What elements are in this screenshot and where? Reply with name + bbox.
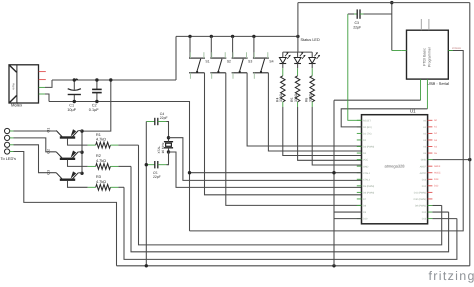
svg-text:10µF: 10µF — [67, 108, 76, 112]
wire LED anode rail — [283, 51, 312, 53]
svg-text:R1: R1 — [96, 133, 101, 137]
svg-text:fritzing: fritzing — [429, 269, 474, 283]
junction dot U1 GND pin — [332, 171, 335, 174]
label To LED's — [1, 156, 17, 161]
wire R5 to U1 pin6 — [298, 107, 362, 160]
FTDI top pin 1 — [420, 19, 422, 30]
junction dot C1 top — [73, 78, 76, 81]
svg-text:XTAL2: XTAL2 — [363, 178, 371, 181]
wire C3 to U1 RESET — [348, 14, 362, 120]
wire S2 output to U1 D8 — [226, 73, 362, 206]
wire U1 D11 to bus — [432, 204, 441, 206]
capacitor C4 22pF — [146, 118, 166, 125]
junction dot C1 bottom — [73, 100, 76, 103]
wire FTDI RX to U1 D0 — [341, 109, 427, 127]
junction dot Q1 collector — [80, 129, 83, 132]
wire crystal GND riser — [145, 122, 147, 266]
svg-text:D12: D12 — [434, 185, 439, 188]
svg-text:Molex: Molex — [11, 103, 23, 108]
wire bus D11 (L1) — [139, 145, 442, 245]
U1 right pins with labels — [414, 119, 441, 221]
wire GND rail — [49, 102, 190, 231]
svg-text:POWER: POWER — [452, 47, 461, 50]
svg-text:D10 (PWM): D10 (PWM) — [414, 198, 427, 201]
wire VCC to transistor collectors — [82, 80, 111, 131]
svg-text:GND: GND — [421, 159, 427, 162]
switch S3 — [232, 36, 248, 78]
resistor R3 4.7k — [88, 184, 124, 190]
svg-text:Q1: Q1 — [47, 128, 51, 133]
svg-text:D1 (TX): D1 (TX) — [363, 133, 372, 136]
wire U1 GND pin to GND bus — [333, 100, 335, 266]
LED LED2 — [294, 52, 305, 68]
svg-text:To LED’s: To LED’s — [1, 156, 17, 161]
svg-text:D10: D10 — [363, 218, 368, 221]
label U1 — [410, 109, 416, 114]
svg-text:Status LED: Status LED — [301, 38, 320, 42]
wire DTR to FTDI — [392, 50, 402, 52]
capacitor C5 22pF — [146, 161, 166, 168]
crystal XTAL 16MHz — [164, 138, 173, 152]
fritzing watermark — [429, 269, 474, 283]
label C2 — [89, 104, 99, 113]
wire U1 GND pin stub — [190, 172, 362, 174]
svg-text:22pF: 22pF — [353, 25, 361, 29]
wire GND bus (L4) — [117, 265, 470, 267]
svg-text:22pF: 22pF — [153, 175, 161, 179]
molex pin 4 stub (GND) — [39, 93, 45, 95]
switch S2 — [210, 36, 226, 78]
label S3 — [248, 60, 252, 64]
svg-text:GND: GND — [363, 165, 369, 168]
label POWER — [452, 47, 461, 50]
svg-text:atmega328: atmega328 — [384, 164, 405, 169]
svg-text:4.7kΩ: 4.7kΩ — [96, 159, 106, 163]
svg-text:R2: R2 — [96, 154, 101, 158]
wire LED riser to top line — [297, 3, 299, 53]
wire connector pin4 to GND — [14, 152, 117, 266]
wire U1 D10 to bus — [432, 211, 448, 213]
label XTAL — [157, 142, 165, 153]
junction dot C2 bottom — [95, 100, 98, 103]
junction dot Q3 collector — [80, 172, 83, 175]
junction dot S1 rail — [188, 35, 191, 38]
svg-text:22pF: 22pF — [160, 116, 168, 120]
connector circle pin 2 (To LEDs) — [5, 135, 14, 140]
junction dot LED riser — [296, 35, 299, 38]
svg-text:D11 (PWM): D11 (PWM) — [414, 191, 427, 194]
svg-text:S1: S1 — [205, 60, 209, 64]
svg-text:D13: D13 — [422, 178, 427, 181]
wire U1 GND right to edge — [432, 159, 469, 161]
connector circle pin 3 (To LEDs) — [5, 142, 14, 147]
junction dot VCC rail x=110.8 — [109, 78, 112, 81]
wire DTR riser — [391, 3, 393, 51]
wire collector riser — [81, 131, 83, 173]
svg-text:D9 (PWM): D9 (PWM) — [415, 205, 426, 208]
label S2 — [227, 60, 231, 64]
transistor Q2 — [56, 151, 87, 167]
connector J1 Molex 4-pin — [9, 65, 39, 103]
wire R6 to U1 pin7 — [312, 107, 361, 165]
molex pin 1 (unconnected, red) — [39, 71, 46, 73]
wire right edge — [469, 3, 471, 266]
label Status LED — [301, 38, 320, 42]
switch S4 — [253, 36, 269, 78]
capacitor C3 22pF — [348, 9, 392, 18]
junction dot GND drop — [188, 171, 191, 174]
junction dot GND bus crystal — [145, 264, 148, 267]
svg-text:4-Pin: 4-Pin — [12, 83, 16, 90]
junction dot crystal bottom — [167, 150, 170, 153]
wire VCC rail — [52, 79, 176, 81]
FTDI bottom pin RX — [426, 79, 428, 109]
LED LED1 — [279, 52, 290, 68]
svg-text:RESET: RESET — [363, 119, 372, 122]
svg-text:4.7kΩ: 4.7kΩ — [96, 138, 106, 142]
junction dot S3 rail — [231, 35, 234, 38]
wire connector pin2 to Q2 — [14, 138, 57, 152]
svg-text:D5 (PWM): D5 (PWM) — [363, 185, 374, 188]
svg-text:VCC: VCC — [363, 159, 368, 162]
svg-text:0.1µF: 0.1µF — [89, 108, 99, 112]
junction dot right edge GND — [468, 158, 471, 161]
svg-text:330Ω: 330Ω — [294, 93, 298, 102]
wire bus D9 (L3) — [124, 187, 457, 259]
svg-text:S2: S2 — [227, 60, 231, 64]
label Q2 — [47, 149, 51, 154]
label C1 — [67, 104, 76, 113]
capacitor C2 — [92, 80, 102, 102]
svg-text:330Ω: 330Ω — [308, 93, 312, 102]
U1 left pins with labels — [357, 119, 375, 220]
svg-text:AVCC: AVCC — [434, 172, 441, 175]
svg-text:4.7kΩ: 4.7kΩ — [96, 180, 106, 184]
junction dot crystal top — [167, 136, 170, 139]
label R2 — [96, 154, 106, 163]
label Molex — [11, 103, 23, 108]
IC FTDI Basic Programmer body — [407, 30, 449, 79]
wire U1 D9 to bus — [432, 218, 457, 220]
svg-text:C5: C5 — [153, 171, 157, 175]
wire molex pin3 to VCC rail — [45, 80, 52, 87]
svg-text:330Ω: 330Ω — [279, 93, 283, 102]
svg-text:R3: R3 — [96, 175, 101, 179]
transistor Q3 — [56, 171, 87, 187]
label R5 — [290, 93, 298, 102]
wire XTAL2 to U1 — [169, 152, 362, 187]
resistor R2 4.7k — [88, 164, 131, 170]
svg-text:D0 (RX): D0 (RX) — [363, 126, 372, 129]
label S1 — [205, 60, 209, 64]
label R4 — [275, 93, 283, 102]
svg-text:D13: D13 — [422, 218, 427, 221]
label Q1 — [47, 128, 51, 133]
FTDI left pin stub — [402, 50, 407, 52]
IC U1 atmega328 body — [362, 115, 428, 224]
svg-text:D3 (PWM): D3 (PWM) — [363, 146, 374, 149]
svg-text:D6 (PWM): D6 (PWM) — [363, 191, 374, 194]
label atmega328 — [384, 164, 405, 169]
junction dot Q2 collector — [80, 151, 83, 154]
capacitor C1 (electrolytic) — [68, 78, 81, 101]
wire U1 pin16 stub — [334, 218, 362, 220]
junction dot S2 rail — [210, 35, 213, 38]
junction dot C5 gnd — [145, 163, 148, 166]
connector circle pin 1 (To LEDs) — [5, 128, 14, 133]
molex pin 3 stub (VCC) — [39, 86, 45, 88]
label S4 — [269, 60, 273, 64]
svg-text:S3: S3 — [248, 60, 252, 64]
wire switch top rail — [176, 35, 298, 37]
junction dot top line DTR — [390, 1, 393, 4]
resistor R4 330 — [281, 68, 286, 107]
svg-text:USB - Serial: USB - Serial — [427, 81, 449, 86]
label R1 — [96, 133, 106, 142]
label C3 — [353, 21, 361, 29]
resistor R5 330 — [295, 68, 300, 107]
junction dot S4 rail — [252, 35, 255, 38]
LED LED3 — [309, 52, 320, 68]
wire bus D10 (L2) — [131, 166, 449, 251]
switch S1 — [189, 36, 205, 78]
svg-text:D13: D13 — [434, 178, 439, 181]
svg-text:AVCC: AVCC — [420, 172, 427, 175]
label R3 — [96, 175, 106, 184]
wire C4 to crystal — [167, 122, 169, 138]
wire molex pin4 to GND rail — [45, 94, 49, 102]
FTDI right pin stub — [448, 50, 453, 52]
wire C5 to crystal — [167, 152, 169, 165]
label USB - Serial — [427, 81, 449, 86]
wire S4 output to U1 D2 — [268, 73, 361, 151]
wire S1 output to U1 D7 — [205, 73, 362, 195]
label R6 — [305, 93, 313, 102]
junction dot GND bus U1 — [332, 264, 335, 267]
label Q3 — [47, 170, 51, 175]
junction dot C2 top — [95, 78, 98, 81]
wire FTDI power loop — [190, 51, 464, 231]
wire FTDI GND down-left to U1 — [334, 99, 421, 101]
svg-text:D12: D12 — [422, 185, 427, 188]
wire U1 pin15 stub — [334, 211, 362, 213]
wire R4 to U1 pin5 — [283, 107, 362, 156]
svg-text:C1: C1 — [69, 104, 74, 108]
connector circle pin 4 (To LEDs) — [5, 149, 14, 154]
wire top line — [298, 2, 470, 4]
svg-text:S4: S4 — [269, 60, 273, 64]
svg-text:16 MHz: 16 MHz — [161, 142, 165, 153]
transistor Q1 — [56, 129, 87, 145]
svg-text:D12: D12 — [422, 211, 427, 214]
resistor R6 330 — [310, 68, 315, 107]
svg-text:AREF: AREF — [420, 165, 427, 168]
resistor R1 4.7k — [88, 142, 139, 148]
wire VCC riser to rail — [175, 36, 177, 80]
label C5 — [153, 171, 161, 179]
FTDI bottom pin GND — [420, 79, 422, 100]
svg-text:C2: C2 — [92, 104, 97, 108]
svg-text:XTAL1: XTAL1 — [363, 172, 371, 175]
wire connector pin3 to Q3 — [14, 145, 57, 173]
wire XTAL1 to U1 — [169, 138, 362, 181]
wire connector pin1 to Q1 — [14, 130, 57, 132]
svg-text:Programmer: Programmer — [428, 46, 432, 67]
molex pin 2 (unconnected, red) — [39, 79, 46, 81]
FTDI top pin 2 — [428, 19, 430, 30]
label C4 — [160, 112, 168, 120]
wire S3 output to U1 D1 — [247, 73, 361, 146]
svg-text:FTDI Basic: FTDI Basic — [423, 48, 427, 66]
svg-text:AREF: AREF — [434, 165, 441, 168]
